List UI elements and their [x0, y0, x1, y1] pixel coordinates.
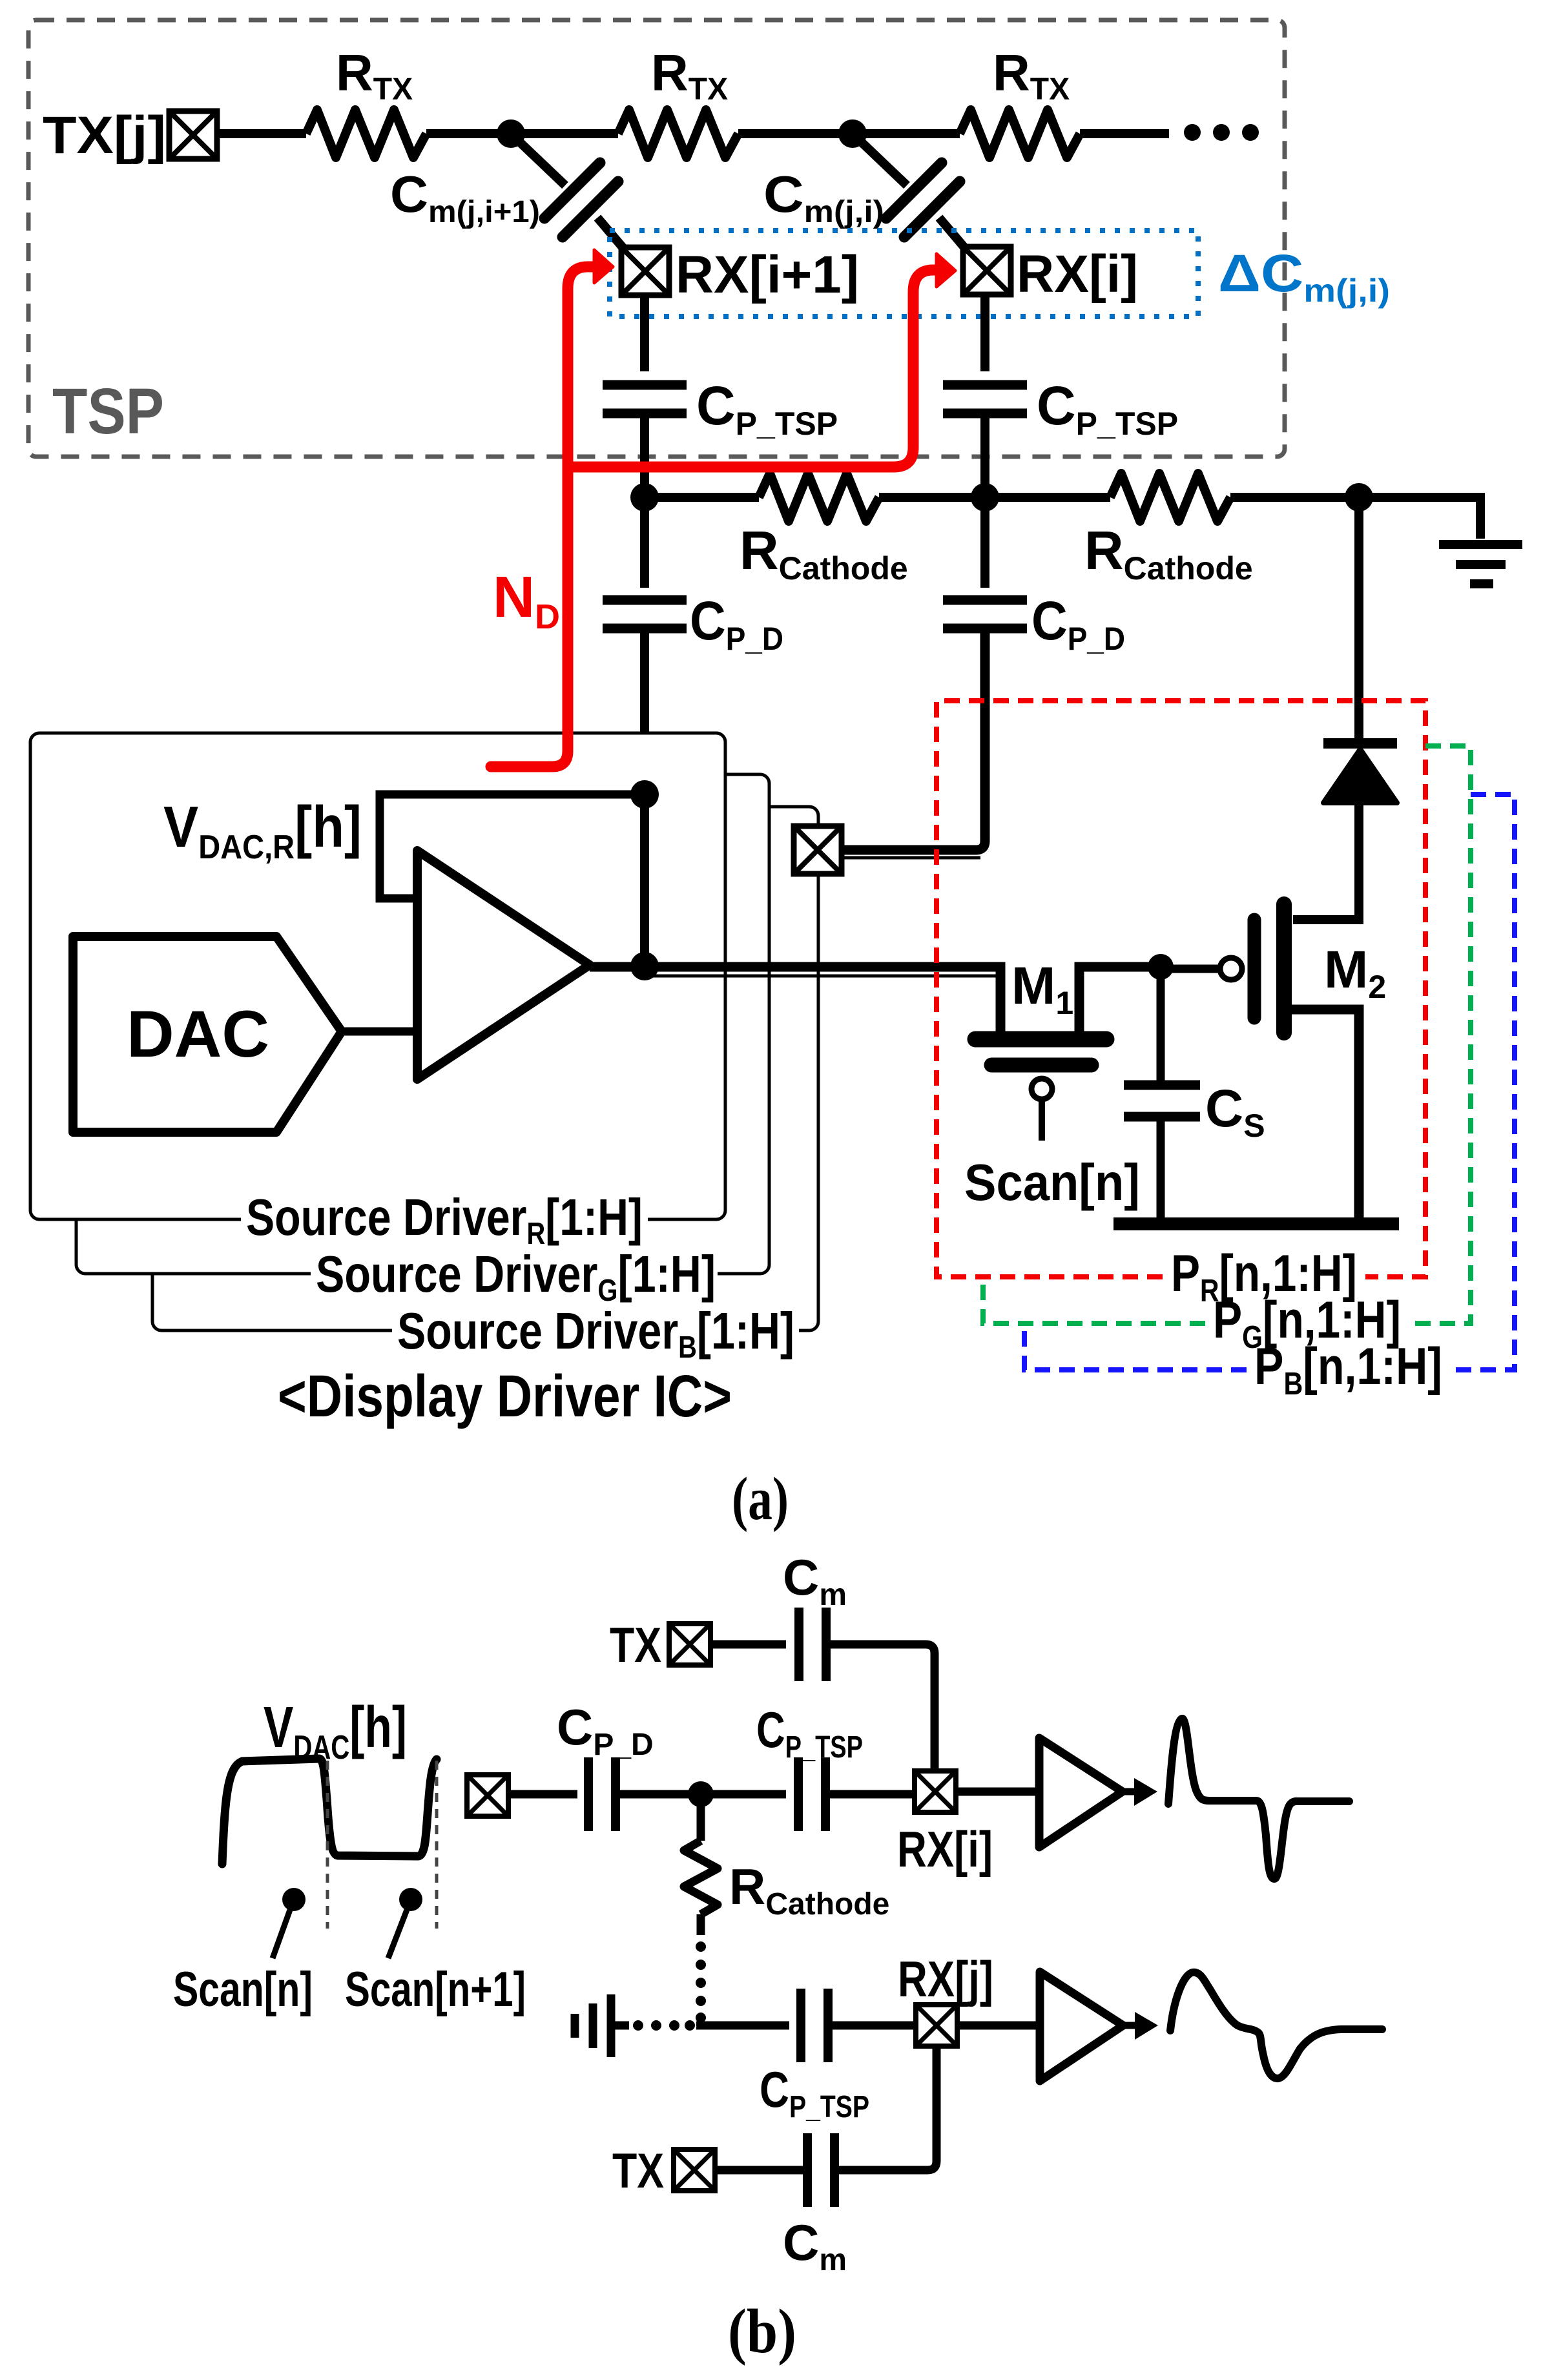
resistor RTX 3 — [960, 110, 1080, 158]
wire terminal to CP_D right column — [842, 628, 985, 850]
Scan[n+1] callout dot — [399, 1888, 422, 1911]
svg-text:(b): (b) — [728, 2297, 796, 2366]
node dot feedback — [630, 780, 659, 809]
svg-text:<Display Driver IC>: <Display Driver IC> — [278, 1363, 732, 1429]
transistor M1 channel bar — [975, 1031, 1106, 1048]
node dot M1-M2 — [1148, 954, 1174, 980]
DAC pentagon — [73, 936, 342, 1132]
Scan[n+1] callout line — [388, 1910, 407, 1958]
wire RX[j] down to Cm (b2) — [837, 2046, 937, 2170]
resistor RCathode (b) vertical — [684, 1841, 718, 1914]
wire CP_TSP to RX[j] — [828, 2022, 917, 2030]
svg-text:DAC: DAC — [127, 997, 269, 1071]
transistor M1 gate circle — [1031, 1079, 1052, 1099]
amplifier AFE 1 — [1039, 1738, 1123, 1847]
capacitor CS — [1124, 1085, 1200, 1117]
PG pixel label — [1213, 1291, 1401, 1355]
wire node to CP_D left — [640, 497, 649, 588]
RX[i] terminal (b) — [915, 1771, 956, 1812]
RX[i] terminal — [963, 247, 1011, 295]
blue dotted box dCm — [610, 231, 1198, 316]
node dot ground branch — [1345, 483, 1373, 512]
capacitor CP_TSP (b2) — [801, 1989, 828, 2062]
terminal driver side (b) — [467, 1775, 508, 1816]
ellipsis dots — [1184, 124, 1259, 141]
transistor M2 channel bar — [1276, 904, 1292, 1033]
pixel VSS bar — [1113, 1217, 1399, 1230]
node dot (b) — [688, 1781, 714, 1807]
wire RX[i+1] down — [640, 295, 649, 371]
wire RX[i] down — [980, 295, 989, 371]
source driver box G — [76, 774, 769, 1274]
wire R1 to R2 — [426, 129, 618, 138]
wire R3 to ellipsis — [1080, 129, 1169, 138]
node dot 2 — [838, 119, 867, 148]
dotted wire horizontal — [633, 2020, 695, 2031]
red ND sense wire with arrow to RX[i+1] — [491, 267, 593, 767]
wire to ground — [1359, 497, 1480, 539]
capacitor CP_D left — [603, 600, 687, 628]
wire TX[j] to R1 — [217, 129, 306, 138]
transistor M1 gate bar — [991, 1058, 1092, 1073]
svg-text:TSP: TSP — [52, 375, 164, 448]
feedback wire of source amp — [380, 794, 643, 898]
diagonal wire Cm(j,i) to RX[i] — [939, 218, 968, 252]
wire RX[j] to amp 2 — [957, 2022, 1038, 2030]
ground stub wire — [611, 2022, 629, 2030]
source driver box R — [30, 733, 725, 1219]
TX terminal (b2) — [674, 2149, 715, 2191]
resistor RTX 1 — [306, 110, 426, 158]
wire DAC to amp — [342, 1028, 419, 1036]
TX top terminal — [669, 1624, 710, 1665]
wire CP_D left down to feedback node — [640, 628, 649, 794]
resistor RTX 2 — [618, 110, 738, 158]
capacitor Cm(j,i+1) slanted plates — [544, 163, 618, 237]
capacitor Cm top — [799, 1608, 826, 1681]
wire CP_D to CP_TSP (b) — [616, 1790, 786, 1799]
node dot cathode left — [630, 483, 659, 512]
node dot 1 — [497, 119, 525, 148]
capacitor Cm(j,i) slanted plates — [886, 163, 960, 237]
wire Cm to RX[i] column — [826, 1644, 935, 1771]
thin G/B output wire — [648, 975, 996, 978]
blue dashed pixel box PB — [1024, 794, 1515, 1370]
wire node1 to RCathode1 — [645, 493, 759, 502]
resistor RCathode 2 — [1110, 473, 1230, 521]
wire amp output to M1 source — [590, 967, 1000, 1035]
scan timing dashed guide 2 — [435, 1761, 439, 1929]
diode D (OLED) cathode bar — [1323, 738, 1397, 749]
PB pixel label — [1254, 1338, 1442, 1402]
Scan[n] callout line — [273, 1910, 290, 1958]
Source DriverG label — [311, 1245, 718, 1308]
capacitor CP_TSP (b) — [798, 1757, 825, 1831]
svg-text:Scan[n+1]: Scan[n+1] — [345, 1962, 526, 2017]
RX[j] output waveform — [1170, 1972, 1382, 2078]
driver terminal to cathode net — [794, 826, 842, 874]
svg-text:Scan[n]: Scan[n] — [964, 1154, 1140, 1211]
wire node2 to RCathode2 — [985, 493, 1110, 502]
scan timing dashed guide 1 — [326, 1761, 329, 1929]
amp 2 output arrow — [1123, 2022, 1137, 2029]
Source DriverR label — [241, 1188, 648, 1251]
svg-text:RX[i]: RX[i] — [897, 1821, 993, 1878]
wire feedback node down to output node — [640, 794, 649, 966]
dotted wire down — [696, 1941, 706, 2023]
capacitor CP_D right — [943, 600, 1027, 628]
diagonal wire Cm(j,i+1) to RX[i+1] — [597, 218, 627, 252]
wire TX to Cm (b2) — [715, 2166, 808, 2175]
node dot amp output — [630, 952, 659, 980]
svg-text:RX[i]: RX[i] — [1017, 245, 1138, 304]
capacitor CP_TSP right — [943, 385, 1027, 413]
wire ground node down to diode — [1354, 497, 1363, 743]
wire node down to RCathode (b) — [697, 1794, 705, 1841]
svg-text:TX: TX — [612, 2144, 664, 2199]
thin parallel wire under terminal wire — [840, 856, 980, 860]
ground symbol — [1439, 544, 1522, 584]
M1 gate stub — [1039, 1099, 1045, 1141]
svg-text:PB[n,1:H]: PB[n,1:H] — [1254, 1338, 1442, 1402]
CS bottom wire — [1157, 1117, 1165, 1219]
svg-text:Source DriverG[1:H]: Source DriverG[1:H] — [316, 1245, 716, 1308]
Source DriverB label — [392, 1302, 799, 1365]
diagonal wire node2 to Cm(j,i) — [853, 134, 907, 185]
Scan[n] callout dot — [282, 1888, 305, 1911]
wire RCathode1 to node2 — [879, 493, 985, 502]
resistor RCathode 1 — [759, 473, 879, 521]
transistor M2 gate circle — [1220, 958, 1242, 980]
M1 drain wire to node — [1079, 967, 1161, 1035]
ground symbol (b) rotated — [575, 1994, 611, 2057]
amplifier AFE 2 — [1040, 1972, 1123, 2081]
wire to CP_D (b) — [508, 1790, 577, 1799]
svg-text:RX[j]: RX[j] — [898, 1951, 993, 2007]
TSP panel dashed outline — [28, 20, 1285, 457]
wire RX[i] to amp (b) — [956, 1788, 1037, 1796]
svg-text:Source DriverB[1:H]: Source DriverB[1:H] — [397, 1302, 794, 1365]
wire R2 to R3 — [738, 129, 960, 138]
svg-text:Scan[n]: Scan[n] — [173, 1962, 313, 2017]
RX[j] terminal — [916, 2005, 957, 2046]
TX[j] terminal — [169, 111, 217, 159]
wire RCathode2 to ground node — [1230, 493, 1359, 502]
wire RCathode stub — [697, 1914, 705, 1935]
red dashed pixel box PR — [937, 701, 1425, 1277]
svg-text:RX[i+1]: RX[i+1] — [676, 245, 859, 304]
wire diode to M2 drain — [1293, 803, 1359, 920]
wire node to M2 gate — [1161, 965, 1221, 973]
VDAC waveform — [222, 1759, 437, 1864]
diagonal wire node1 to Cm(j,i+1) — [511, 134, 565, 185]
transistor M2 gate bar — [1248, 920, 1261, 1018]
capacitor CP_TSP left — [603, 385, 687, 413]
wire node to CP_D right — [980, 497, 989, 588]
PR pixel label — [1171, 1245, 1357, 1309]
wire to CP_TSP (b2) — [696, 2022, 789, 2030]
RX[i] output waveform — [1168, 1719, 1349, 1879]
node dot cathode mid — [971, 483, 999, 512]
op-amp source amplifier triangle — [417, 851, 590, 1079]
amp 1 output arrow — [1123, 1788, 1137, 1795]
RX[i+1] terminal — [621, 247, 669, 295]
svg-text:Source DriverR[1:H]: Source DriverR[1:H] — [246, 1188, 643, 1251]
wire CP_TSP right to node — [980, 413, 989, 497]
wire CP_TSP to RX[i] (b) — [825, 1790, 916, 1799]
svg-text:TX: TX — [610, 1618, 661, 1673]
M2 source wire to VSS bar — [1290, 1009, 1359, 1219]
wire CP_TSP left to node — [640, 413, 649, 497]
capacitor CP_D (b) — [588, 1757, 616, 1831]
svg-text:TX[j]: TX[j] — [43, 106, 166, 165]
diode D triangle — [1323, 749, 1397, 803]
green dashed pixel box PG — [983, 746, 1471, 1323]
source driver box B — [152, 807, 818, 1330]
capacitor CS top wire — [1157, 967, 1165, 1086]
capacitor Cm (b2) — [807, 2133, 834, 2207]
red branch wire with arrow to RX[i] — [568, 270, 935, 467]
svg-text:(a): (a) — [732, 1465, 789, 1533]
wire TX to Cm — [710, 1640, 786, 1649]
